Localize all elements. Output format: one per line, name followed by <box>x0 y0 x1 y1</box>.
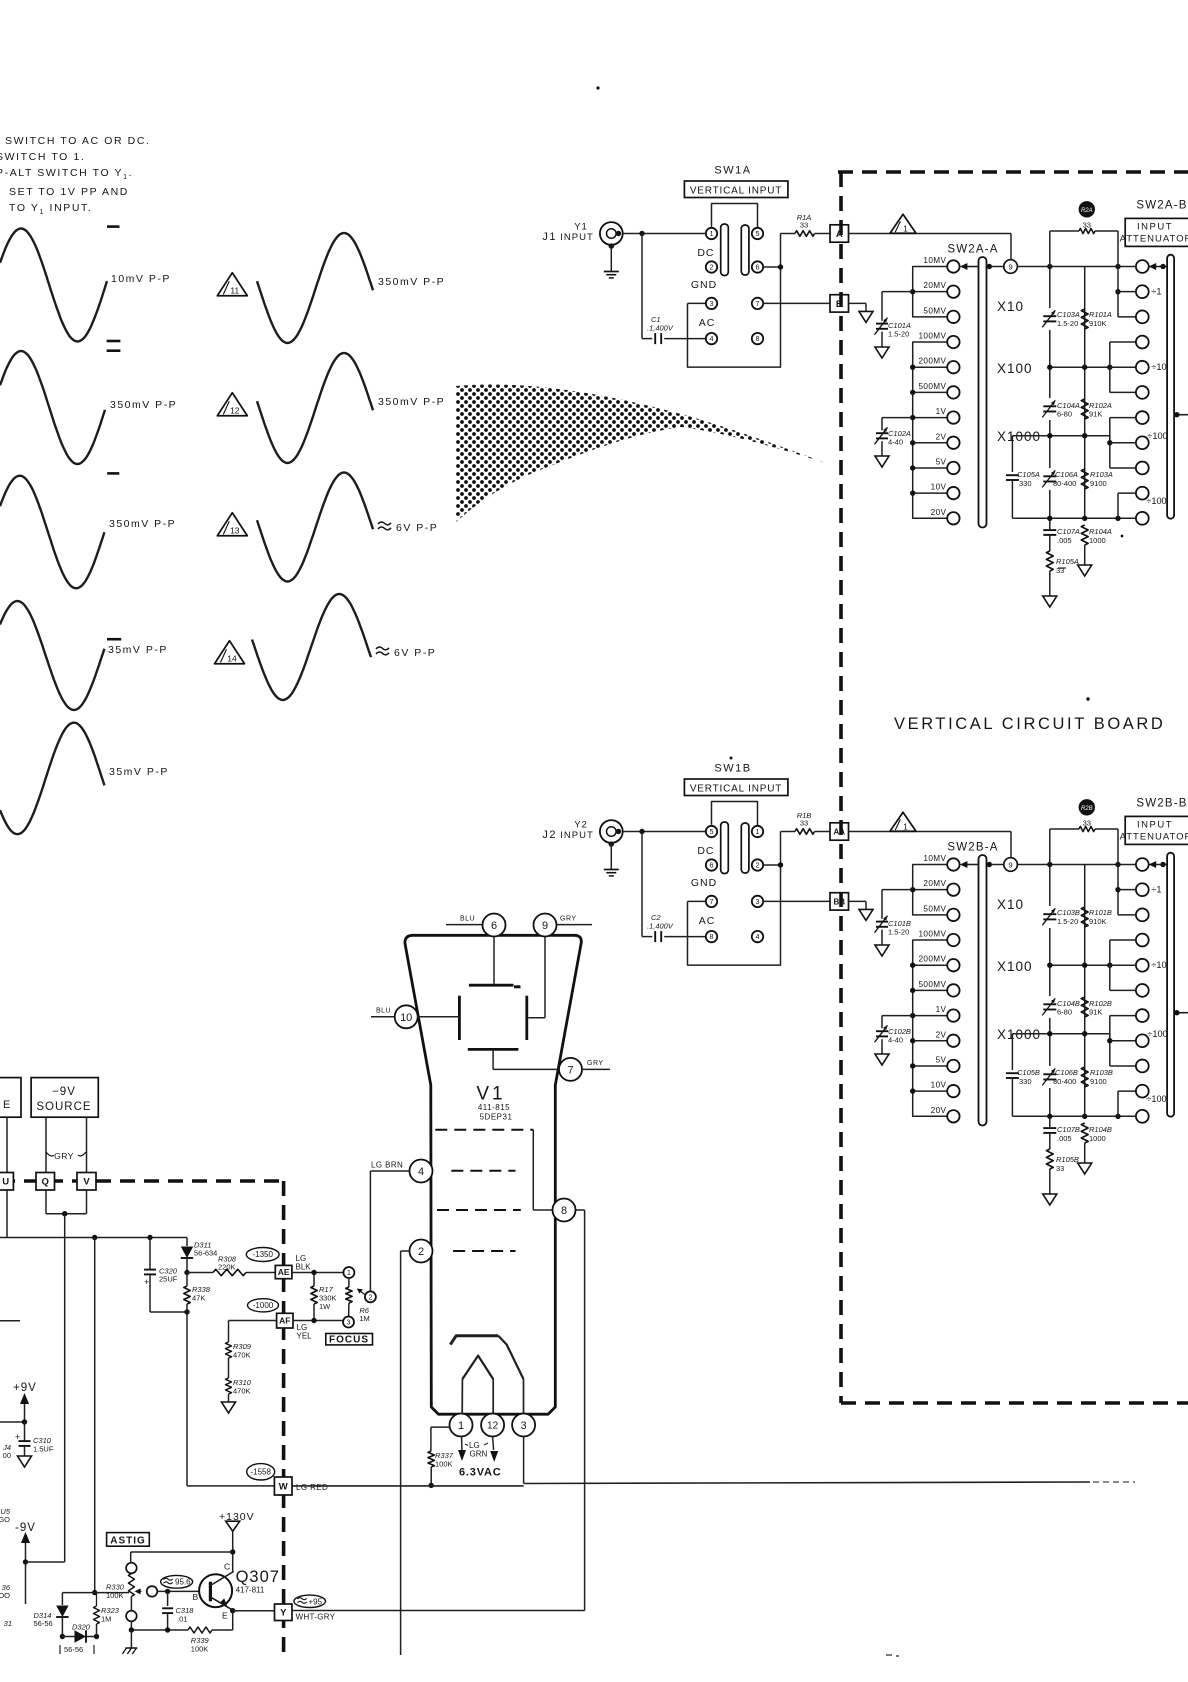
svg-text:R2A: R2A <box>1081 208 1093 214</box>
svg-text:25UF: 25UF <box>159 1275 178 1284</box>
svg-text:Y2: Y2 <box>574 820 588 831</box>
wafer bar SW2-B <box>1167 853 1174 1117</box>
wiper arrow to 10MV tap <box>963 864 979 866</box>
svg-text:1M: 1M <box>101 1615 111 1624</box>
svg-text:R103A: R103A <box>1090 470 1113 479</box>
svg-text:350mV P-P: 350mV P-P <box>378 276 445 288</box>
svg-text:20V: 20V <box>931 508 947 517</box>
svg-text:R104A: R104A <box>1089 527 1112 536</box>
tap 20V <box>947 512 959 524</box>
svg-text:LG RED: LG RED <box>296 1483 328 1492</box>
junction <box>184 1270 189 1275</box>
svg-text:X1000: X1000 <box>997 429 1041 444</box>
switch SW1B pin 1 <box>752 826 763 837</box>
waveform R2 350mV P-P <box>257 353 373 463</box>
trimmer capacitor C101A 1.5-20 <box>882 291 913 293</box>
svg-text:20V: 20V <box>931 1106 947 1115</box>
svg-text:35mV P-P: 35mV P-P <box>109 766 169 778</box>
waveform R1 350mV P-P <box>257 233 373 343</box>
VERTICAL INPUT box <box>684 181 788 198</box>
svg-text:00: 00 <box>3 1451 11 1460</box>
ground below R104 <box>1078 1163 1092 1174</box>
switch SW1A pin 5 <box>752 228 763 239</box>
voltage oval -1350 <box>246 1248 279 1262</box>
dashed board border top <box>838 170 1188 174</box>
svg-text:6: 6 <box>491 920 497 932</box>
resistor R102B 91K <box>1081 997 1088 1017</box>
node Y <box>275 1604 293 1621</box>
svg-text:E: E <box>222 1611 228 1621</box>
capacitor C310 1.5UF <box>24 1422 26 1441</box>
voltage oval -1558 <box>247 1464 275 1480</box>
svg-text:GND: GND <box>691 877 717 889</box>
CRT grid electrode dashed 3 <box>437 1209 521 1211</box>
svg-text:+95: +95 <box>309 1597 323 1606</box>
selector contact circle row 6 <box>1136 984 1149 997</box>
ground <box>875 347 889 358</box>
selector contact circle row 4 <box>1136 336 1149 349</box>
VERTICAL INPUT box <box>684 779 788 796</box>
trimmer capacitor C103A 1.5-20 <box>1043 308 1057 330</box>
dashed board border bottom <box>841 1401 1188 1405</box>
svg-text:1: 1 <box>710 229 714 238</box>
svg-text:411-815: 411-815 <box>478 1103 510 1112</box>
warning triangle 1 <box>890 812 916 831</box>
svg-text:417-811: 417-811 <box>236 1586 265 1595</box>
svg-text:-1000: -1000 <box>253 1301 274 1310</box>
svg-text:1.5UF: 1.5UF <box>33 1445 54 1454</box>
svg-text:10MV: 10MV <box>923 854 946 863</box>
LG RED wire across page <box>292 1485 524 1487</box>
svg-text:ASTIG: ASTIG <box>110 1535 146 1546</box>
wire jack to switch pin <box>623 831 706 833</box>
svg-text:6.3VAC: 6.3VAC <box>459 1467 502 1479</box>
wire pin3 down to LG RED wire <box>523 1437 525 1484</box>
svg-text:X1000: X1000 <box>997 1027 1041 1042</box>
svg-text:SET TO 1V PP AND: SET TO 1V PP AND <box>9 186 129 198</box>
bottom row wire <box>1050 1115 1136 1117</box>
capacitor C318 .01 <box>167 1591 169 1606</box>
svg-text:10MV: 10MV <box>923 256 946 265</box>
wire bottom plate to pin 7 <box>492 1049 494 1069</box>
wire pin8 right and down to Y node wire <box>576 1209 585 1211</box>
tap bus upper segment <box>913 267 948 317</box>
resistor R101B 910K <box>1081 907 1088 927</box>
resistor R103A 9100 <box>1081 469 1088 489</box>
wire down to diode network <box>94 1238 96 1593</box>
svg-text:6V P-P: 6V P-P <box>396 522 438 534</box>
node U <box>0 1173 13 1191</box>
focus pot terminal 2 <box>365 1291 376 1302</box>
wafer bar SW2-A <box>979 855 987 1126</box>
svg-text:4-40: 4-40 <box>888 1036 903 1045</box>
resistor R105B 33 <box>1046 1149 1053 1169</box>
selector contact circle row 6 <box>1136 386 1149 399</box>
resistor R101A 910K <box>1081 309 1088 329</box>
svg-text:V1: V1 <box>476 1084 505 1105</box>
wire pin to node BB <box>763 900 830 902</box>
junction 20MV <box>913 291 948 293</box>
svg-text:12: 12 <box>230 405 240 415</box>
capacitor C1 .1 400V <box>654 333 656 344</box>
ground <box>875 1054 889 1065</box>
svg-text:X10: X10 <box>997 299 1024 314</box>
svg-text:R105B: R105B <box>1056 1155 1079 1164</box>
CRT V1 envelope <box>405 935 581 1414</box>
resistor R338 47K <box>184 1286 190 1304</box>
tap junction <box>913 1040 948 1042</box>
svg-text:2: 2 <box>368 1294 372 1301</box>
svg-text:11: 11 <box>230 285 239 295</box>
switch SW1A pin 3 <box>706 298 717 309</box>
svg-text:÷1: ÷1 <box>1151 885 1161 895</box>
tap 200MV <box>947 959 959 971</box>
svg-text:500MV: 500MV <box>918 980 946 989</box>
svg-text:V: V <box>83 1177 90 1188</box>
wire pin10 to left plate <box>418 1016 460 1018</box>
tap junction <box>913 1015 948 1017</box>
trimmer capacitor C101B 1.5-20 <box>882 889 913 891</box>
svg-text:DC: DC <box>697 845 714 857</box>
selector contact circle row 11 <box>1136 512 1149 525</box>
wire junction to astig pot <box>95 1592 129 1594</box>
junction right of bar <box>987 864 1004 866</box>
diode D311 56-634 <box>186 1238 188 1247</box>
svg-text:-1350: -1350 <box>252 1250 273 1259</box>
wire node AA to attenuator <box>849 831 1012 833</box>
svg-text:1: 1 <box>903 223 908 233</box>
tap junction <box>913 492 948 494</box>
selector contact circle row 10 <box>1136 487 1149 500</box>
astig pot top terminal <box>126 1563 137 1574</box>
wire emitter to node Y <box>233 1610 275 1612</box>
waveform W1 10mV P-P <box>0 229 107 342</box>
selector contact circle row 7 <box>1136 411 1149 424</box>
CRT pin 8 <box>553 1199 576 1222</box>
switch SW1A pin 8 <box>752 333 763 344</box>
svg-text:100MV: 100MV <box>918 930 946 939</box>
trimmer capacitor C106B 80-400 <box>1043 1066 1057 1088</box>
wire -9V to vertical rail <box>26 1561 65 1563</box>
svg-text:10: 10 <box>400 1012 412 1024</box>
svg-text:C106B: C106B <box>1055 1068 1078 1077</box>
node AF <box>277 1313 293 1328</box>
svg-text:1.5-20: 1.5-20 <box>1057 917 1078 926</box>
svg-text:100K: 100K <box>191 1645 209 1654</box>
tap junction <box>913 391 948 393</box>
svg-text:470K: 470K <box>233 1387 251 1396</box>
selector contact circle row 2 <box>1136 285 1149 298</box>
switch SW1B pin 6 <box>706 859 717 870</box>
DC level mark below W3 <box>107 638 121 641</box>
svg-text:500MV: 500MV <box>918 382 946 391</box>
switch SW1A pin 6 <box>752 261 763 272</box>
wire 9 to divider network <box>1017 266 1136 268</box>
svg-text:4: 4 <box>756 932 760 941</box>
svg-text:C105A: C105A <box>1017 470 1040 479</box>
ground below R105 <box>1043 1194 1057 1205</box>
junction <box>311 1270 316 1275</box>
tap 100MV <box>947 336 959 348</box>
svg-text:91K: 91K <box>1089 410 1102 419</box>
svg-text:BLU: BLU <box>460 916 475 923</box>
junction emitter <box>230 1608 235 1613</box>
svg-text:: SWITCH TO AC OR DC.: : SWITCH TO AC OR DC. <box>0 135 151 147</box>
CRT pin 3 <box>512 1414 535 1437</box>
trimmer capacitor C102B 4-40 <box>882 1015 913 1017</box>
switch SW1A pin 7 <box>752 298 763 309</box>
wire to capacitor C2 <box>641 832 643 937</box>
junction pot bottom <box>129 1627 134 1632</box>
wire left source to node U <box>6 1117 8 1172</box>
horizontal deflection plate left <box>458 996 461 1040</box>
svg-text:3: 3 <box>347 1320 351 1327</box>
resistor R309 470K <box>226 1342 232 1358</box>
trimmer capacitor C104A 6-80 <box>1043 398 1057 420</box>
svg-text:P-ALT SWITCH TO Y1.: P-ALT SWITCH TO Y1. <box>0 167 133 181</box>
X100 row junctions <box>1050 366 1136 368</box>
trimmer capacitor C106A 80-400 <box>1043 468 1057 490</box>
selector contact circle row 1 <box>1136 858 1149 871</box>
waveform R3 ~6V P-P <box>257 473 373 582</box>
svg-text:GRY: GRY <box>54 1151 74 1161</box>
svg-text:+: + <box>15 1432 20 1442</box>
svg-text:Q: Q <box>42 1177 49 1188</box>
ground below C310 <box>18 1456 32 1467</box>
svg-text:9: 9 <box>1009 262 1013 271</box>
potentiometer R330 100K <box>128 1574 134 1597</box>
trimmer capacitor C103B 1.5-20 <box>1043 906 1057 928</box>
switch wafer bars <box>721 224 729 276</box>
resistor R104B 1000 <box>1081 1123 1088 1143</box>
CRT pin 10 (BLU) <box>371 1016 395 1018</box>
svg-text:31: 31 <box>4 1619 12 1628</box>
CRT grid electrode dashed 2 <box>451 1170 515 1172</box>
wiper contact 9 <box>1004 858 1018 872</box>
6.3VAC arrows from pins 1 and 12 <box>461 1437 463 1451</box>
svg-text:7: 7 <box>756 299 760 308</box>
svg-text:33: 33 <box>1056 1164 1064 1173</box>
resistor R310 470K <box>226 1378 232 1394</box>
warning triangle 1 <box>890 214 916 233</box>
svg-text:AC: AC <box>699 317 716 329</box>
tap 2V <box>947 1035 959 1047</box>
switch SW1B pin 2 <box>752 859 763 870</box>
resistor R104A 1000 <box>1081 525 1088 545</box>
svg-text:C103B: C103B <box>1057 908 1080 917</box>
svg-text:50MV: 50MV <box>923 306 946 315</box>
wire at 1422 <box>0 1421 25 1423</box>
junction base/C318 <box>165 1589 170 1594</box>
tap bus lower segment <box>913 342 948 518</box>
DC level marks (equals) below W1 <box>107 340 121 343</box>
svg-text:R101B: R101B <box>1089 908 1112 917</box>
selector contacts rows 1-3 <box>1117 865 1119 915</box>
svg-text:ATTENUATOR: ATTENUATOR <box>1120 234 1188 245</box>
wire node B to ground <box>849 302 867 304</box>
switch SW1B pin 8 <box>706 931 717 942</box>
wiper arrow into row 1 <box>1149 864 1167 866</box>
svg-text:OO: OO <box>0 1591 10 1600</box>
note triangle 14 <box>215 641 245 664</box>
vertical deflection plate bottom <box>468 1048 519 1051</box>
svg-text:X10: X10 <box>997 897 1024 912</box>
connector J1 Y1 input jack <box>600 222 623 245</box>
wiper contact 9 <box>1004 260 1018 274</box>
wire junction to diode D314 <box>92 1590 97 1595</box>
junction <box>23 1559 28 1564</box>
svg-text:VERTICAL INPUT: VERTICAL INPUT <box>690 783 782 794</box>
svg-text:8: 8 <box>756 334 760 343</box>
left rail wire <box>1049 267 1051 530</box>
svg-text:350mV P-P: 350mV P-P <box>110 399 177 411</box>
svg-text:LG BRN: LG BRN <box>371 1161 403 1170</box>
selector contact circle row 8 <box>1136 436 1149 449</box>
tap 1V <box>947 411 959 423</box>
trimmer capacitor C102A 4-40 <box>882 417 913 419</box>
selector contacts rows 7-9 <box>1109 1016 1111 1066</box>
svg-text:VERTICAL CIRCUIT BOARD: VERTICAL CIRCUIT BOARD <box>894 715 1165 733</box>
wire 9 to divider network <box>1017 864 1136 866</box>
switch body outline wire <box>688 234 781 368</box>
svg-text:33: 33 <box>800 819 808 828</box>
svg-text:33: 33 <box>1083 221 1091 230</box>
ground below R104 <box>1078 565 1092 576</box>
svg-text:5DEP31: 5DEP31 <box>480 1113 513 1122</box>
junction 20MV <box>913 889 948 891</box>
DC level mark below W2 <box>107 472 119 475</box>
astig wiper terminal <box>147 1586 158 1597</box>
svg-text:1000: 1000 <box>1089 1134 1106 1143</box>
junction right of pin <box>763 864 780 866</box>
wire pin to outline <box>688 302 706 304</box>
CRT pin 9 (GRY) <box>557 924 593 926</box>
wire pot bottom to bottom rail <box>130 1621 132 1630</box>
CRT pin 12 <box>481 1414 504 1437</box>
svg-text:R101A: R101A <box>1089 310 1112 319</box>
capacitor C2 .1 400V <box>654 931 656 942</box>
diode D314 56-56 <box>56 1606 68 1618</box>
ground below R105 <box>1043 596 1057 607</box>
svg-text:10mV P-P: 10mV P-P <box>111 273 171 285</box>
svg-text:Q307: Q307 <box>236 1568 280 1586</box>
svg-text:INPUT: INPUT <box>560 232 594 243</box>
internal wire to pin 8 <box>532 1130 534 1210</box>
DC level mark above W1 <box>107 225 120 228</box>
svg-text:÷100: ÷100 <box>1147 1029 1167 1039</box>
svg-text:8: 8 <box>561 1205 567 1217</box>
svg-text:1M: 1M <box>359 1314 369 1323</box>
tap 50MV <box>947 311 959 323</box>
CRT pin 1 <box>450 1414 473 1437</box>
svg-text:2V: 2V <box>936 432 947 441</box>
CRT grid electrode dashed 1 <box>435 1129 533 1131</box>
wafer bar SW2-B <box>1167 255 1174 519</box>
selector contact circle row 4 <box>1136 934 1149 947</box>
svg-text:4-40: 4-40 <box>888 438 903 447</box>
svg-text:1.5-20: 1.5-20 <box>1057 319 1078 328</box>
node A <box>830 225 849 242</box>
svg-text:GND: GND <box>691 279 717 291</box>
junction <box>94 1634 99 1639</box>
svg-text:YEL: YEL <box>297 1332 313 1341</box>
selector contact circle row 3 <box>1136 908 1149 921</box>
junction collector feed <box>230 1549 235 1554</box>
svg-text:INPUT: INPUT <box>560 830 594 841</box>
svg-text:÷1: ÷1 <box>1151 287 1161 297</box>
svg-text:350mV P-P: 350mV P-P <box>109 518 176 530</box>
svg-text:200MV: 200MV <box>918 955 946 964</box>
tap junction <box>913 417 948 419</box>
wires -9V source to nodes Q and V <box>45 1117 47 1172</box>
svg-text:8: 8 <box>710 932 714 941</box>
tap junction <box>913 989 948 991</box>
selector contact circle row 3 <box>1136 310 1149 323</box>
wire to capacitor C1 <box>641 234 643 339</box>
svg-text:6: 6 <box>710 861 714 870</box>
svg-text:47K: 47K <box>192 1294 205 1303</box>
node B <box>830 295 849 312</box>
tap junction <box>913 366 948 368</box>
svg-text:9100: 9100 <box>1090 1077 1107 1086</box>
svg-text:BLK: BLK <box>296 1263 312 1272</box>
svg-text:350mV P-P: 350mV P-P <box>378 396 445 408</box>
wire terminal 2 up to CRT pin 4 (LG BRN) <box>369 1171 371 1291</box>
voltage oval ~+95 <box>294 1595 326 1607</box>
svg-text:3: 3 <box>521 1420 527 1432</box>
selector contact circle row 9 <box>1136 1060 1149 1073</box>
vertical deflection plate top <box>469 984 514 987</box>
svg-text:÷100: ÷100 <box>1147 431 1167 441</box>
junction <box>62 1211 67 1216</box>
tap 20V <box>947 1110 959 1122</box>
resistor R105A 33 <box>1046 551 1053 571</box>
capacitor C320 25UF <box>149 1238 151 1270</box>
selector contacts rows 10-11 <box>1117 493 1119 518</box>
svg-text:C105B: C105B <box>1017 1068 1040 1077</box>
trimmer capacitor C104B 6-80 <box>1043 996 1057 1018</box>
svg-text:100K: 100K <box>435 1460 453 1469</box>
resistor R103B 9100 <box>1081 1067 1088 1087</box>
svg-text:3: 3 <box>710 299 714 308</box>
chassis ground below astig pot <box>130 1630 132 1648</box>
dashed board border horizontal left section <box>0 1179 284 1183</box>
svg-text:50MV: 50MV <box>923 904 946 913</box>
junction <box>147 1235 152 1240</box>
svg-text:2: 2 <box>418 1246 424 1258</box>
svg-text:WHT-GRY: WHT-GRY <box>296 1613 336 1622</box>
junction <box>639 231 644 236</box>
svg-text:1: 1 <box>347 1270 351 1277</box>
svg-text:1V: 1V <box>936 407 947 416</box>
svg-text:2: 2 <box>710 263 714 272</box>
node BB <box>830 893 849 910</box>
junction R337 to LG RED wire <box>429 1483 434 1488</box>
right rail wire <box>1084 865 1086 1119</box>
tap 500MV <box>947 386 959 398</box>
wire junction down to -9V rail <box>64 1214 66 1562</box>
wire pin2 down <box>401 1250 410 1252</box>
horizontal wire at 1237 <box>0 1237 187 1239</box>
selector contact circle row 11 <box>1136 1110 1149 1123</box>
voltage oval ~95.6 <box>161 1575 193 1588</box>
svg-text:200MV: 200MV <box>918 357 946 366</box>
svg-text:330: 330 <box>1019 1077 1032 1086</box>
svg-text:7: 7 <box>567 1064 573 1076</box>
+130V supply triangle <box>226 1521 240 1531</box>
svg-text:4: 4 <box>418 1166 424 1178</box>
ground <box>859 909 873 920</box>
